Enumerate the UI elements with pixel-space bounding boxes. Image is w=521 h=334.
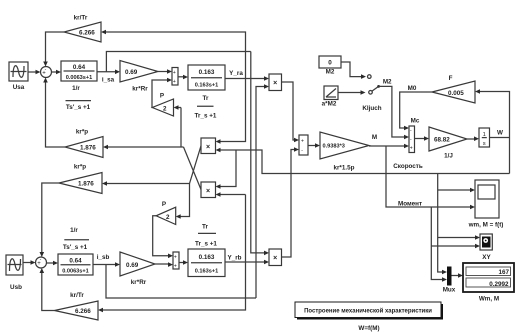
svg-text:Ts′_s +1: Ts′_s +1	[63, 244, 88, 251]
svg-text:0.69: 0.69	[126, 262, 139, 269]
constant M2 (0)	[319, 56, 341, 76]
svg-text:Usa: Usa	[13, 84, 25, 91]
wire X4 out to torque sum in2	[282, 147, 300, 257]
svg-text:F: F	[449, 75, 453, 82]
sum block ssum2	[173, 252, 179, 270]
wire i_sb branch down and right to V3	[106, 265, 256, 299]
wire w drop at 437.7	[438, 174, 480, 275]
sum block ssum1	[172, 68, 178, 86]
svg-text:kr*Rr: kr*Rr	[132, 86, 148, 93]
manual switch Kljuch	[362, 79, 392, 113]
svg-text:0.163s+1: 0.163s+1	[195, 83, 219, 89]
svg-text:kr/Tr: kr/Tr	[70, 292, 84, 299]
svg-text:W: W	[497, 130, 503, 137]
svg-text:M2: M2	[383, 79, 392, 86]
wire sum1 to TF1a	[52, 70, 62, 75]
wire ramp to switch lower	[338, 90, 372, 95]
product X3 (Y_ra * i_sb) right upper	[269, 74, 282, 91]
gain kr*Rr lower 0.69	[120, 252, 155, 286]
wire P1 output to ssum1 in2	[152, 78, 172, 108]
svg-text:+: +	[174, 264, 177, 270]
svg-text:Скорость: Скорость	[393, 163, 423, 170]
svg-text:Mc: Mc	[411, 118, 420, 125]
svg-text:0.163: 0.163	[199, 254, 215, 261]
sum block Mc	[409, 118, 420, 153]
wire into P2 from junction (189.5,183.5)	[176, 184, 190, 219]
wire P2 output to ssum2 in1	[153, 216, 173, 258]
svg-text:0.0063s+1: 0.0063s+1	[62, 269, 89, 275]
transfer function Tr upper: 0.163/0.163s+1	[188, 65, 225, 90]
wire diagonal D1 X1 out to kr*p lower	[102, 146, 201, 186]
svg-text:M0: M0	[408, 85, 417, 92]
svg-text:2: 2	[166, 214, 170, 221]
mux block	[443, 267, 456, 294]
gain P2 (pole pairs 2)	[156, 201, 176, 225]
svg-text:Mux: Mux	[443, 287, 456, 294]
svg-text:1/J: 1/J	[444, 153, 453, 160]
wire M to Mc sum in3	[369, 144, 409, 149]
svg-text:+: +	[173, 70, 176, 76]
svg-text:0.64: 0.64	[69, 258, 82, 265]
svg-text:M2: M2	[326, 69, 335, 76]
annotation fraction Ts'_s+1 upper	[66, 101, 92, 111]
svg-text:Построение механической характ: Построение механической характеристики	[304, 308, 432, 315]
svg-text:kr*1.5p: kr*1.5p	[333, 165, 354, 172]
svg-text:×: ×	[206, 144, 210, 151]
wire X3 out to torque sum in1	[282, 82, 300, 142]
svg-text:M: M	[372, 134, 377, 141]
svg-text:i_sa: i_sa	[102, 77, 115, 84]
svg-text:Usb: Usb	[10, 284, 22, 291]
gain P1 (pole pairs 2)	[152, 93, 173, 117]
svg-text:0: 0	[328, 60, 332, 67]
svg-text:167: 167	[498, 269, 509, 276]
wire Y_rb to product X4	[225, 260, 269, 265]
wire M vertical drop at 431.3	[431, 207, 480, 282]
transfer function 1/r lower: 0.64/0.0063s+1	[58, 254, 93, 275]
wire 1/J to integrator	[467, 136, 479, 141]
product X2 (w * Y_rb) center lower	[201, 182, 216, 198]
wire 6.266a output to sum1 top	[43, 32, 64, 67]
wire TF1b to 0.69b	[93, 262, 120, 267]
svg-text:i_sb: i_sb	[97, 254, 110, 261]
annotation box Построение	[295, 302, 443, 320]
wire i_sa branch up and right (to V2)	[106, 52, 250, 72]
annotation fraction Ts'_s+1 lower (above block)	[63, 227, 89, 251]
svg-text:0.163s+1: 0.163s+1	[195, 269, 219, 275]
svg-text:×: ×	[273, 255, 277, 262]
wire into kr*p1 from crossing	[103, 145, 184, 150]
svg-text:kr*Rr: kr*Rr	[131, 279, 147, 286]
svg-text:Kljuch: Kljuch	[362, 105, 381, 112]
source Usb	[6, 255, 23, 291]
gain kr*p lower 1.876	[59, 164, 102, 194]
wire 6.266b output to sum2 bottom	[40, 268, 55, 311]
svg-text:Tr: Tr	[203, 95, 209, 102]
wire 0.69a to ssum1	[158, 69, 172, 74]
svg-text:Tr_s +1: Tr_s +1	[195, 113, 217, 120]
wire constant to switch upper	[341, 62, 371, 79]
XY graph block	[480, 234, 492, 261]
svg-text:+: +	[174, 255, 177, 261]
svg-text:kr*p: kr*p	[74, 164, 86, 171]
svg-text:kr*p: kr*p	[76, 129, 88, 136]
wire 0.69b to ssum2 in2	[155, 262, 173, 267]
product X1 (w * Y_ra) center upper	[201, 138, 216, 154]
transfer function Tr lower: 0.163/0.163s+1	[188, 249, 225, 277]
wire M branch down to scope/XY/Mux	[386, 146, 475, 209]
wire V1b to X2 in2	[216, 192, 246, 197]
gain kr*p upper 1.876	[65, 129, 103, 158]
summing junction sum2	[36, 257, 47, 272]
wire w branch to X2 in1	[216, 150, 237, 189]
svg-text:wm, M = f(t): wm, M = f(t)	[468, 222, 504, 229]
svg-text:Ts′_s +1: Ts′_s +1	[66, 104, 91, 111]
svg-text:XY: XY	[482, 254, 491, 261]
wire Mc sum to 1/J gain	[415, 136, 430, 141]
svg-text:W=f(M): W=f(M)	[358, 325, 379, 332]
svg-text:1/r: 1/r	[72, 85, 80, 92]
wire kr*p1 output to sum1 bottom	[43, 78, 65, 148]
svg-text:Wm, M: Wm, M	[479, 296, 499, 303]
wire V3 i_sb vertical up to X3 in2	[256, 84, 269, 298]
wire w feedback long line	[216, 148, 510, 174]
svg-text:+: +	[410, 146, 413, 152]
wire F output M0 to Mc sum in1	[400, 92, 432, 130]
svg-text:Y_rb: Y_rb	[228, 255, 242, 262]
wire into P1 from junction at (181,147)	[174, 105, 182, 147]
wire ssum1 to TF2a	[178, 75, 188, 80]
svg-text:0.005: 0.005	[448, 90, 464, 97]
gain kr/Tr lower 6.266	[55, 292, 99, 320]
svg-text:6.266: 6.266	[79, 30, 95, 37]
wire tsum to gain kr*1.5p	[308, 143, 320, 148]
transfer function 1/r (Ts's+1) upper: 0.64/0.0063s+1	[61, 61, 97, 92]
svg-text:0.64: 0.64	[73, 64, 86, 71]
svg-text:2: 2	[163, 106, 167, 113]
svg-text:0.9383*3: 0.9383*3	[323, 144, 345, 150]
gain 1/J 68.82	[429, 127, 467, 160]
gain kr*1.5p 0.9383*3	[320, 132, 369, 172]
wire V1b Y_rb vertical	[98, 195, 246, 313]
svg-text:6.266: 6.266	[75, 308, 91, 315]
svg-text:+: +	[301, 139, 304, 145]
wire W output loop	[475, 89, 510, 173]
wire V2 i_sa vertical down	[251, 52, 269, 256]
annotation fraction Tr/Tr_s+1 upper	[195, 95, 217, 120]
svg-text:P: P	[162, 201, 166, 208]
svg-text:Момент: Момент	[398, 201, 422, 208]
svg-text:68.82: 68.82	[434, 137, 450, 144]
gain kr/Tr upper 6.266	[64, 15, 101, 43]
svg-text:1/r: 1/r	[70, 227, 78, 234]
svg-text:1.876: 1.876	[80, 145, 96, 152]
wire diagonal D2 X2 out to kr*p upper	[184, 147, 202, 190]
display Wm, M	[463, 263, 514, 303]
svg-text:×: ×	[206, 188, 210, 195]
summing junction sum1	[41, 67, 52, 82]
svg-text:s: s	[483, 141, 486, 147]
svg-text:1.876: 1.876	[78, 181, 94, 188]
svg-text:×: ×	[273, 80, 277, 87]
svg-text:Tr: Tr	[202, 224, 208, 231]
svg-text:a*M2: a*M2	[322, 101, 337, 108]
svg-text:kr/Tr: kr/Tr	[74, 15, 88, 22]
wire Y_ra to product X3	[225, 76, 269, 81]
integrator 1/s	[479, 128, 490, 147]
wire sum2 to TF1b	[47, 261, 59, 266]
wire Usa to sum1	[28, 70, 41, 75]
wire kr*p2 output to sum2 top	[40, 183, 60, 257]
gain kr*Rr upper 0.69	[120, 61, 158, 93]
wire mux to display	[452, 273, 464, 278]
svg-text:+: +	[173, 79, 176, 85]
wire switch output M2 to Mc sum in2	[379, 86, 409, 139]
source Usa	[9, 62, 28, 91]
wire V1a Y_ra vertical branch	[101, 30, 246, 144]
scope wm, M = f(t)	[468, 180, 504, 229]
svg-text:0.69: 0.69	[125, 69, 138, 76]
svg-text:0.2992: 0.2992	[489, 281, 509, 288]
svg-text:P: P	[160, 93, 164, 100]
wire ssum2 to TF2b	[179, 260, 188, 265]
sum block torque tsum	[299, 135, 308, 155]
svg-text:0.163: 0.163	[199, 69, 215, 76]
gain F (0.005)	[432, 75, 475, 103]
product X4 (i_sa * Y_rb) right lower	[269, 249, 282, 266]
ramp a*M2	[322, 86, 338, 108]
svg-text:Tr_s +1: Tr_s +1	[195, 241, 217, 248]
wire Usb to sum2	[23, 260, 36, 265]
svg-text:Y_ra: Y_ra	[229, 70, 243, 77]
annotation fraction Tr/Tr_s+1 lower (above)	[195, 224, 217, 248]
wire TF1a to gain 0.69a with branch up	[97, 70, 120, 75]
svg-text:0.0063s+1: 0.0063s+1	[66, 75, 93, 81]
